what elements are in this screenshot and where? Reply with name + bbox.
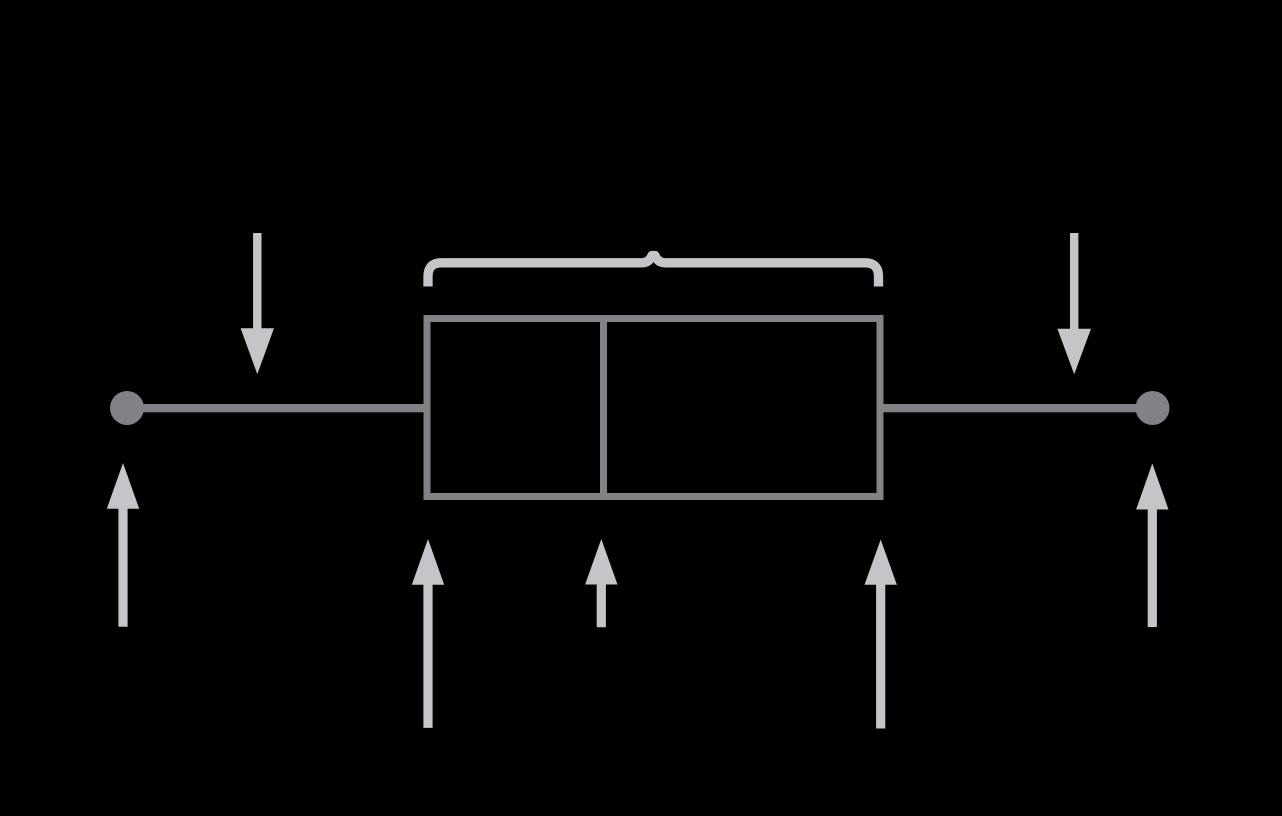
up arrow below maximum point — [1136, 464, 1168, 628]
IQR brace — [428, 256, 879, 287]
up arrow below Q1 (box left edge) — [412, 539, 444, 728]
box (Q1 to Q3) — [427, 319, 880, 497]
median line — [600, 315, 607, 500]
left whisker wire — [127, 404, 430, 412]
right whisker wire — [880, 404, 1138, 412]
minimum point (left dot) — [110, 391, 144, 425]
down arrow above left whisker — [241, 233, 274, 374]
maximum point (right dot) — [1136, 391, 1170, 425]
up arrow below minimum point — [107, 463, 139, 627]
up arrow below median — [585, 539, 617, 627]
down arrow above right whisker — [1057, 233, 1091, 374]
up arrow below Q3 (box right edge) — [865, 540, 897, 729]
